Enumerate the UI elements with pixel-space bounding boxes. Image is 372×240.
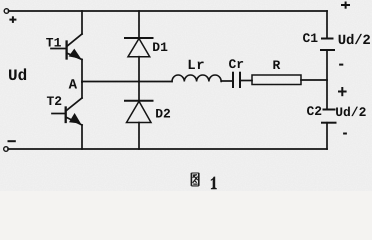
svg-text:Ud: Ud [8,67,27,85]
svg-text:C1: C1 [303,31,319,46]
svg-text:R: R [273,58,281,73]
svg-text:Ud/2: Ud/2 [335,105,366,120]
svg-text:C2: C2 [307,104,323,119]
svg-text:T1: T1 [46,35,62,50]
svg-text:D2: D2 [155,106,171,121]
svg-text:D1: D1 [152,40,168,55]
svg-text:T2: T2 [47,94,63,109]
svg-text:Ud/2: Ud/2 [338,33,371,49]
svg-text:Lr: Lr [187,58,205,74]
svg-text:A: A [69,77,78,93]
svg-text:Cr: Cr [229,57,245,72]
